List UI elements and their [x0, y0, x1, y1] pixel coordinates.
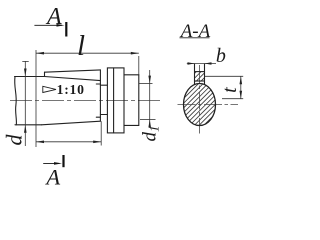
svg-text:b: b: [216, 45, 226, 67]
svg-text:1:10: 1:10: [57, 82, 85, 97]
svg-text:d: d: [140, 132, 161, 142]
svg-text:A-A: A-A: [179, 21, 211, 42]
svg-text:A: A: [44, 164, 60, 189]
svg-text:d: d: [1, 134, 26, 146]
svg-text:1: 1: [147, 126, 162, 133]
svg-text:A: A: [45, 4, 62, 30]
svg-text:t: t: [219, 87, 241, 93]
svg-text:l: l: [77, 30, 85, 62]
